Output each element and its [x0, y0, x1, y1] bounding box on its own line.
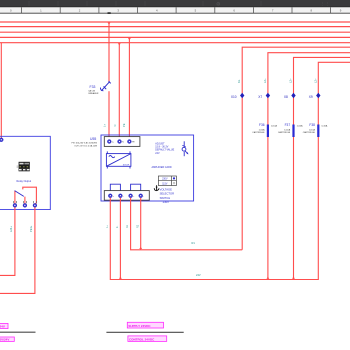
node X10 [231, 79, 245, 99]
svg-text:0V/24V: 0V/24V [0, 338, 9, 342]
wire stair X10 [242, 47, 350, 250]
svg-text:F33: F33 [90, 85, 96, 89]
svg-text:F37: F37 [285, 123, 291, 127]
svg-text:115V: 115V [162, 183, 168, 185]
svg-text:CARTRIDGE: CARTRIDGE [303, 131, 316, 134]
svg-text:PE: PE [122, 123, 126, 127]
junction out4 [139, 247, 142, 249]
wire bus L2 [0, 21, 350, 23]
wire relay out1 [0, 207, 15, 275]
svg-text:L2+: L2+ [263, 78, 267, 83]
fuse F37 [278, 123, 303, 137]
node X9 [309, 78, 321, 99]
svg-text:R1: R1 [192, 241, 196, 245]
svg-text:SELECTOR: SELECTOR [160, 192, 174, 196]
relay box top terminal [0, 138, 3, 142]
wire stair X9 [294, 62, 350, 279]
wire drop L+ lower [108, 91, 110, 139]
svg-text:1x10A: 1x10A [259, 129, 266, 132]
relay contact [15, 187, 37, 204]
svg-text:U55: U55 [90, 137, 96, 141]
svg-text:L+: L+ [103, 124, 107, 127]
wire U55 out2 [119, 198, 121, 280]
fuse F36 [252, 123, 277, 137]
svg-text:24V: 24V [196, 273, 201, 277]
breaker F33 symbol [100, 81, 110, 91]
node X7 [258, 78, 270, 99]
relay terminal ticks [13, 201, 36, 203]
separator mid [106, 331, 183, 333]
svg-text:X8: X8 [284, 95, 288, 99]
link box mid 2 [128, 336, 167, 342]
svg-text:230V: 230V [162, 179, 168, 181]
breaker icon U55 [182, 141, 188, 156]
toolbar [0, 0, 350, 8]
svg-text:X10: X10 [231, 95, 237, 99]
selector anchor icon [154, 185, 159, 190]
wire U55 out4 [140, 198, 142, 250]
wire stair X8 [268, 57, 350, 279]
junction out2 [119, 277, 122, 279]
junction PE [128, 38, 131, 40]
jumper bracket 1 [110, 184, 120, 190]
svg-text:CONTROL 24VDC: CONTROL 24VDC [129, 337, 155, 341]
jumper bracket 2 [131, 184, 141, 190]
wire bus L3 [0, 26, 350, 28]
link box left 2 [0, 337, 14, 342]
svg-text:SWITCH: SWITCH [160, 196, 171, 200]
junction L+ [108, 23, 111, 25]
svg-text:1x10A: 1x10A [297, 125, 304, 128]
svg-text:SUPPLY 24VDC: SUPPLY 24VDC [128, 324, 151, 328]
node X8 [284, 78, 296, 99]
svg-text:L24+: L24+ [9, 226, 13, 232]
label U55 spec [71, 142, 97, 148]
wire drop N [118, 43, 120, 140]
power supply unit U55 box [101, 135, 194, 201]
svg-text:X7: X7 [258, 95, 262, 99]
relay terminal 1 [13, 204, 17, 208]
svg-text:1x10A: 1x10A [284, 129, 291, 132]
link box left 1 [0, 323, 8, 328]
label adjust [155, 142, 174, 155]
svg-text:SITOP: SITOP [123, 164, 130, 166]
svg-text:1x10A: 1x10A [271, 125, 278, 128]
wire U55 out3 [131, 198, 243, 250]
svg-text:AMPLIFIER CARD: AMPLIFIER CARD [152, 166, 172, 169]
svg-text:PE1+: PE1+ [29, 225, 33, 232]
terminal strip U55 top [104, 137, 140, 147]
voltage selector table [158, 176, 176, 186]
wire relay out3 [0, 207, 35, 293]
svg-text:BREAKER: BREAKER [89, 92, 99, 95]
svg-text:230V: 230V [163, 200, 169, 204]
svg-text:24V: 24V [0, 325, 5, 329]
junction N [118, 43, 121, 45]
svg-text:PN: 100-230 V AC 50/60HZ: PN: 100-230 V AC 50/60HZ [71, 142, 97, 145]
relay terminal 3 [33, 204, 37, 208]
sheet column ruler [0, 7, 350, 14]
wire left drop to relay box [0, 43, 2, 139]
wire drop L+ upper [108, 22, 110, 82]
svg-text:KL: KL [237, 79, 241, 83]
svg-text:OUT: 24 V DC 0.5A 12W: OUT: 24 V DC 0.5A 12W [74, 144, 97, 147]
relay photo icon [17, 162, 30, 172]
svg-text:X9: X9 [309, 95, 313, 99]
svg-text:L2+: L2+ [289, 78, 293, 83]
label F33 spec [89, 90, 99, 95]
svg-text:1x10A: 1x10A [321, 125, 328, 128]
wire bus PE [0, 36, 350, 38]
svg-text:1x10A: 1x10A [309, 129, 316, 132]
svg-text:N: N [113, 125, 117, 127]
svg-text:Relay Output: Relay Output [17, 180, 32, 183]
junction net2 b [292, 277, 295, 279]
wire U55 out1 [110, 198, 318, 280]
wire stair X7 [268, 53, 350, 280]
separator left [0, 331, 36, 333]
svg-text:F36: F36 [259, 123, 265, 127]
svg-text:F38: F38 [309, 123, 315, 127]
wire drop PE [128, 37, 130, 139]
junction net2 a [267, 277, 270, 279]
svg-text:L2+: L2+ [313, 78, 317, 83]
relay terminal 2 [23, 204, 27, 208]
fuse F38 [303, 123, 328, 137]
relay box [0, 136, 50, 209]
svg-text:24V: 24V [155, 152, 160, 155]
svg-text:2-: 2- [116, 226, 119, 228]
power supply symbol [106, 151, 130, 168]
terminal strip U55 bottom [104, 191, 149, 201]
svg-text:VOLTAGE: VOLTAGE [160, 187, 173, 191]
wire bus N [0, 31, 350, 33]
svg-text:CARTRIDGE: CARTRIDGE [278, 131, 291, 134]
svg-text:CARTRIDGE: CARTRIDGE [252, 131, 265, 134]
label voltage selector [160, 187, 174, 204]
link box mid 1 [127, 322, 163, 328]
wire bus N2 [0, 42, 350, 44]
